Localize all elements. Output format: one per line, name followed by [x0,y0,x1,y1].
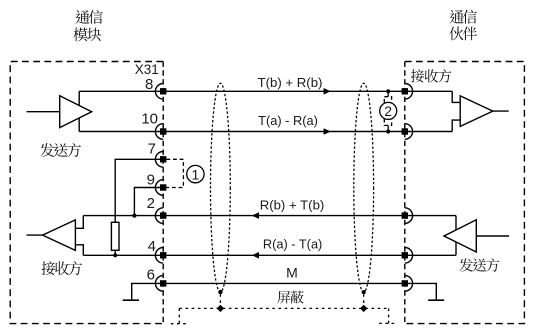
wire shield drop (right ellipse to rail) [363,294,365,308]
connector line partner (right dashed pin column) [404,62,406,324]
note callout 1 [187,165,204,182]
wire sender input (left driver input stub) [27,111,60,113]
wire R(a)-T(a) net (pin 4 row) [83,254,456,256]
communication module dashed enclosure (left) [10,62,163,324]
node shield tap (left) [218,290,222,294]
pin 7 connector (X31) [155,152,163,168]
arrow R(a)-T(a) direction (left) [252,252,259,259]
receiver amplifier (right 接收方 triangle) [460,96,493,127]
wire driver output bus vertical (behind left driver) [78,91,80,131]
svg-text:R(a) - T(a): R(a) - T(a) [263,237,322,252]
wire receiver upper input bracket (left) [75,216,83,229]
svg-text:6: 6 [147,267,155,284]
wire partner receiver upper input step [452,91,460,102]
svg-text:1: 1 [192,166,200,182]
wire receiver output stub (right) [493,110,509,112]
label 接收方 (left receiver) [42,261,83,275]
junction shield rail (right diamond) [360,305,367,312]
wire M to ground (left) [132,283,164,300]
pin 4 connector (X31) [155,248,163,264]
pin 6 connector (X31) [155,276,163,292]
ground symbol (right M) [428,299,444,301]
connector line X31 (left dashed pin column) [162,62,164,324]
wire partner receiver lower input step [452,120,460,131]
arrow T(b)+R(b) direction (right) [324,88,331,95]
svg-text:X31: X31 [135,62,159,77]
wire receiver lower input bracket (left) [75,245,83,256]
svg-text:4: 4 [148,238,156,255]
wire R(b)+T(b) net (pin 2 row) [83,215,456,217]
wire shield cabinet stub (left) [171,323,188,325]
wire T(b)+R(b) net (pin 8 row) [79,90,452,92]
arrow R(b)+T(b) direction (left) [252,212,259,219]
svg-text:T(a) - R(a): T(a) - R(a) [258,113,318,128]
junction shield rail (left diamond) [217,305,224,312]
title 通信伙伴 (communication partner) [449,10,476,24]
ground symbol (left M) [123,299,139,301]
wire shield rail left drop to cabinet [178,308,180,323]
svg-text:10: 10 [141,111,158,128]
svg-text:9: 9 [147,172,155,189]
note 2 dashed bracket [384,91,391,131]
label 屏蔽 (shield) [277,291,303,304]
label 发送方 (left transmitter) [40,143,81,157]
node shield tap (right) [362,290,366,294]
wire pin9 to R(b) net [134,188,163,216]
wire pin7 to termination resistor [115,159,163,222]
partner connector pin row2 [405,124,413,140]
pin 10 connector (X31) [155,124,163,140]
svg-text:M: M [286,264,298,280]
title 通信模块 (communication module) [75,10,102,24]
label 接收方 (right receiver) [411,69,451,82]
junction pin9/R(b) net [132,214,136,218]
wire T(a)-R(a) net (pin 10 row) [79,131,452,133]
wire M net (pin 6 row) [163,282,405,284]
wire shield rail right drop to cabinet [388,308,390,323]
svg-text:2: 2 [147,195,155,212]
driver amplifier (left 发送方 triangle) [60,96,92,128]
wire shield rail 屏蔽 [179,307,388,309]
wire driver input stub (right) [476,235,509,237]
partner connector pin row3 [405,208,413,224]
svg-text:8: 8 [145,76,153,93]
cable shield ellipse (right) [354,83,374,292]
partner connector pin M [405,276,413,292]
pin 9 connector (X31) [155,180,163,196]
junction resistor/R(a) net [113,253,117,257]
svg-text:T(b) + R(b): T(b) + R(b) [258,75,323,90]
wire partner driver output bus vertical (behind right driver) [455,216,457,256]
node pin row1 tap (circle2 top) [386,89,390,93]
pin 2 connector (X31) [155,208,163,224]
wire shield cabinet stub (right) [379,322,395,324]
svg-text:2: 2 [384,103,392,119]
pin 8 connector (X31) [155,84,163,100]
partner connector pin row4 [405,248,413,264]
node pin row2 tap (circle2 bottom) [386,129,390,133]
arrow T(a)-R(a) direction (right) [324,128,331,135]
note 1 dashed bracket (pins 7-9) [166,159,183,187]
communication partner dashed enclosure (right) [405,62,525,324]
cable shield ellipse (left) [211,83,231,292]
wire resistor bottom to R(a)-T(a) net [114,250,116,255]
svg-text:R(b) + T(b): R(b) + T(b) [260,198,325,213]
wire receiver output stub (left) [27,234,43,236]
partner connector pin row1 [405,84,413,100]
resistor R termination [111,222,119,250]
receiver amplifier (left 接收方 triangle) [43,220,76,251]
svg-text:7: 7 [148,141,156,158]
label 发送方 (right transmitter) [459,258,499,271]
wire shield drop (left ellipse to rail) [219,294,221,308]
wire M to ground (right) [405,283,437,300]
driver amplifier (right 发送方 triangle) [444,220,476,252]
note callout 2 [380,102,397,119]
